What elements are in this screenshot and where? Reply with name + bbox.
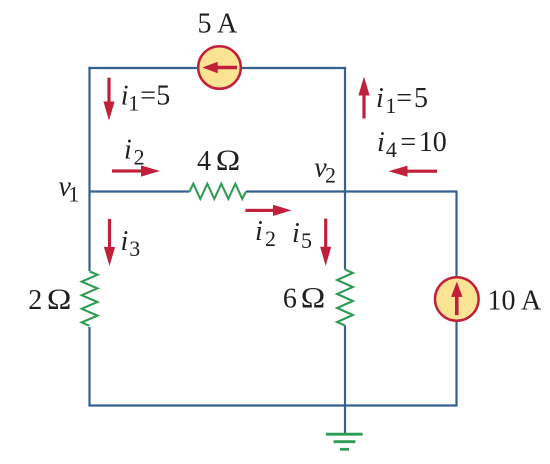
svg-text:1: 1 <box>128 91 139 116</box>
svg-text:5: 5 <box>156 81 170 112</box>
svg-text:5: 5 <box>414 83 428 114</box>
svg-text:3: 3 <box>129 236 140 261</box>
svg-text:1: 1 <box>385 93 396 118</box>
svg-text:2: 2 <box>134 145 145 170</box>
svg-text:Ω: Ω <box>47 283 72 316</box>
svg-text:5 A: 5 A <box>198 8 238 39</box>
svg-text:i: i <box>255 216 263 247</box>
svg-text:2: 2 <box>265 226 276 251</box>
svg-text:=: = <box>140 81 156 112</box>
svg-text:i: i <box>121 226 129 257</box>
svg-text:=: = <box>400 127 416 158</box>
svg-text:5: 5 <box>301 228 312 253</box>
svg-text:Ω: Ω <box>301 282 326 315</box>
svg-text:4: 4 <box>197 146 211 177</box>
svg-text:2: 2 <box>28 285 42 316</box>
svg-text:6: 6 <box>283 284 297 315</box>
svg-text:i: i <box>376 83 384 114</box>
svg-text:4: 4 <box>386 137 397 162</box>
svg-text:10 A: 10 A <box>488 285 542 316</box>
svg-text:=: = <box>396 83 412 114</box>
svg-text:i: i <box>124 135 132 166</box>
svg-text:2: 2 <box>325 163 336 188</box>
svg-text:i: i <box>292 218 300 249</box>
svg-text:Ω: Ω <box>216 144 241 177</box>
svg-text:10: 10 <box>419 127 447 158</box>
svg-text:i: i <box>377 127 385 158</box>
svg-text:1: 1 <box>68 182 79 207</box>
